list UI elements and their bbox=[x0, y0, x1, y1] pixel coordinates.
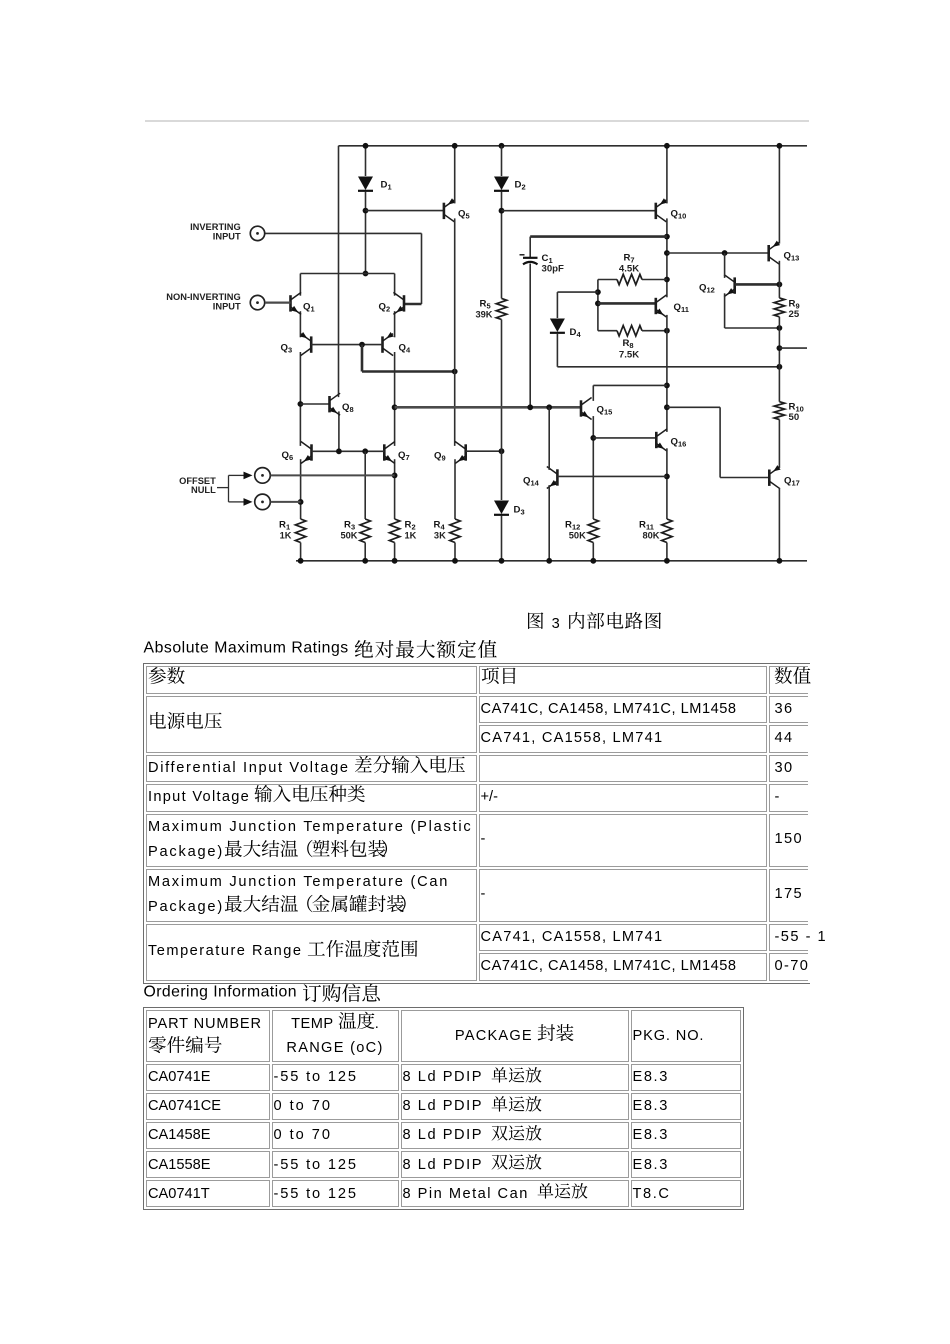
wire Q1 collector bbox=[299, 274, 301, 296]
transistor Q2 bbox=[393, 292, 404, 314]
wire Q12 collector up bbox=[724, 253, 726, 278]
transistor Q11 bbox=[656, 295, 667, 317]
junction V+ / D1 bbox=[363, 143, 369, 149]
svg-text:Q16: Q16 bbox=[671, 437, 687, 449]
wire bias tap vertical bbox=[361, 345, 364, 372]
junction Q10 collector / C1 wire bbox=[664, 234, 670, 240]
transistor Q13 bbox=[769, 242, 780, 264]
junction Q10 emitter / V+ rail bbox=[664, 143, 670, 149]
wire Q7 emitter down to R2 bbox=[394, 459, 396, 519]
caption 图3 内部电路图 bbox=[526, 612, 663, 632]
wire Q13 base bbox=[667, 252, 769, 254]
svg-text:50: 50 bbox=[789, 412, 800, 423]
junction R2 / V- rail bbox=[392, 558, 398, 564]
diode D1 bbox=[358, 177, 373, 191]
resistor R10 bbox=[774, 402, 784, 420]
transistor Q1 bbox=[291, 292, 302, 314]
svg-text:Q13: Q13 bbox=[784, 251, 800, 263]
svg-text:1K: 1K bbox=[405, 531, 417, 541]
svg-text:50K: 50K bbox=[569, 531, 586, 541]
wire R7 right lead bbox=[642, 279, 667, 281]
wire Q14 base to Q16 emitter line bbox=[557, 475, 667, 477]
junction R1 / V- rail bbox=[298, 558, 304, 564]
resistor R2 bbox=[389, 519, 399, 543]
wire inverting input bbox=[265, 232, 422, 234]
wire C1 top to Q10 collector bbox=[530, 235, 667, 238]
wire C1 top plate lead bbox=[529, 237, 531, 258]
junction R11 / V- rail bbox=[664, 558, 670, 564]
transistor Q6 bbox=[301, 442, 312, 464]
transistor Q8 bbox=[330, 393, 341, 415]
svg-text:NULL: NULL bbox=[191, 485, 216, 495]
wire Q3 collector to Q6 collector bbox=[299, 352, 301, 446]
transistor Q5 bbox=[444, 200, 455, 222]
wire Q16 emitter down to R11 bbox=[666, 448, 668, 519]
wire R12 to V- rail bbox=[592, 543, 594, 561]
wire R1 to V- rail bbox=[300, 543, 302, 561]
wire offset null 1 to Q7 emitter bbox=[271, 474, 395, 476]
svg-text:Q5: Q5 bbox=[458, 209, 470, 221]
junction Q13 emitter / V+ rail bbox=[777, 143, 783, 149]
svg-text:4.5K: 4.5K bbox=[619, 264, 639, 275]
wire R10 to Q17 collector bbox=[778, 420, 780, 468]
wire R7 left lead bbox=[598, 279, 617, 281]
transistor Q15 bbox=[581, 398, 592, 420]
junction Q12 base / Q13 collector bbox=[777, 282, 783, 288]
junction Q4 collector line / Q15 base wire bbox=[392, 404, 398, 410]
svg-text:Q6: Q6 bbox=[282, 450, 294, 462]
junction / Q13 base wire bbox=[664, 250, 670, 256]
resistor R11 bbox=[662, 519, 672, 543]
wire D3 to V- rail bbox=[501, 516, 503, 561]
junction Q8 collector / Q6-Q7 base wire bbox=[336, 448, 342, 454]
junction V+ / D2 bbox=[499, 143, 505, 149]
junction left vertical / Q11 base wire bbox=[595, 301, 601, 307]
wire Q12 base to R9 top bbox=[735, 283, 780, 286]
junction D4 wire / output column bbox=[777, 364, 783, 370]
svg-text:30pF: 30pF bbox=[542, 264, 565, 275]
junction R3 / V- rail bbox=[362, 558, 368, 564]
wire Q17 base vertical bbox=[719, 407, 721, 477]
svg-text:Q7: Q7 bbox=[398, 450, 410, 462]
junction C1 / Q15 base wire bbox=[527, 404, 533, 410]
svg-text:1K: 1K bbox=[280, 531, 292, 541]
svg-text:D2: D2 bbox=[515, 180, 526, 192]
resistor R9 bbox=[774, 298, 784, 317]
transistor Q7 bbox=[384, 442, 395, 464]
svg-text:R8: R8 bbox=[622, 338, 633, 350]
wire R7-R8 left vertical bbox=[597, 280, 599, 331]
resistor R5 bbox=[496, 298, 506, 319]
transistor Q4 bbox=[383, 334, 394, 356]
wire D1 anode bbox=[365, 146, 367, 176]
transistor Q12 bbox=[724, 275, 735, 297]
resistor R7 bbox=[617, 274, 642, 284]
node NON-INVERTING INPUT terminal bbox=[250, 295, 264, 309]
transistor Q10 bbox=[656, 200, 667, 222]
wire R5 to D3 bbox=[501, 320, 503, 501]
junction Q5 emitter / V+ rail bbox=[452, 143, 458, 149]
wire Q11 emitter to R8 junction down to Q16 collector bbox=[666, 315, 668, 432]
wire Q1 emitter to Q3 emitter bbox=[299, 311, 301, 337]
wire R8 left lead bbox=[598, 330, 617, 332]
junction / Q15 collector wire bbox=[664, 383, 670, 389]
junction left vertical / D4 top wire bbox=[595, 289, 601, 295]
transistor Q9 bbox=[455, 442, 466, 464]
svg-text:D1: D1 bbox=[381, 180, 392, 192]
wire D4 cathode down bbox=[556, 334, 558, 367]
wire D4 anode vertical bbox=[556, 292, 558, 318]
svg-text:Q4: Q4 bbox=[399, 343, 411, 355]
wire Q3-Q4 base bar bbox=[311, 344, 382, 346]
offset null bracket bbox=[217, 487, 229, 489]
wire Q9 base to R5/D3 node bbox=[466, 450, 502, 452]
svg-text:Q3: Q3 bbox=[281, 343, 293, 355]
junction bias wire / Q5-Q9 collector line bbox=[452, 369, 458, 375]
junction offset null 1 / R1 line bbox=[298, 499, 304, 505]
transistor Q3 bbox=[301, 334, 312, 356]
wire down to R3 bbox=[364, 451, 366, 519]
resistor R12 bbox=[588, 519, 598, 543]
svg-text:D4: D4 bbox=[570, 327, 582, 339]
junction offset null 2 / Q7 emitter bbox=[392, 473, 398, 479]
wire Q8 base bbox=[300, 403, 329, 405]
wire Q15 collector to Q11 emitter line bbox=[593, 384, 667, 386]
wire Q17 base horizontal bbox=[720, 477, 769, 479]
svg-text:Q2: Q2 bbox=[379, 302, 391, 314]
top rule bbox=[145, 120, 809, 122]
wire Q15 base (from Q4 collector) bbox=[395, 406, 581, 409]
junction output node bbox=[777, 345, 783, 351]
wire R8 right lead bbox=[642, 330, 667, 332]
junction Q14 emitter / V- rail bbox=[546, 558, 552, 564]
wire D4 top bbox=[557, 291, 598, 293]
wire R11 to V- rail bbox=[666, 543, 668, 561]
svg-text:3K: 3K bbox=[434, 531, 446, 541]
svg-text:Q11: Q11 bbox=[674, 302, 689, 314]
diode D4 bbox=[550, 319, 565, 333]
wire Q2 base stub bbox=[404, 303, 422, 306]
node INVERTING INPUT terminal bbox=[250, 226, 264, 240]
wire Q16 collector node to Q17 base bbox=[667, 406, 720, 408]
wire Q2 collector bbox=[394, 274, 396, 296]
wire offset null 2 to R1 top bbox=[271, 501, 301, 503]
wire Q2 emitter to Q4 emitter bbox=[394, 311, 396, 337]
wire Q10 emitter to V+ bbox=[666, 146, 668, 204]
wire Q14 emitter to V- rail bbox=[548, 485, 550, 561]
junction / Q17 drive wire bbox=[664, 404, 670, 410]
wire Q6 emitter down to R1 bbox=[300, 459, 302, 519]
node OFFSET NULL terminal 2 bbox=[255, 494, 271, 510]
wire Q6 base to Q7 base bbox=[312, 450, 385, 452]
svg-text:Q12: Q12 bbox=[699, 283, 715, 295]
junction D1 line / Q5 base wire bbox=[363, 208, 369, 214]
junction Q17 emitter / V- rail bbox=[777, 558, 783, 564]
junction base wire / R3 line bbox=[362, 448, 368, 454]
wire bias tap to Q5 collector bbox=[362, 370, 455, 373]
junction R9 bottom / Q12 emitter bbox=[777, 325, 783, 331]
wire D1 cathode to Q1/Q2 collector bar bbox=[365, 192, 367, 274]
svg-text:7.5K: 7.5K bbox=[619, 350, 639, 361]
wire Q15 collector up bbox=[592, 385, 594, 401]
wire D4 bottom to output column bbox=[557, 366, 779, 368]
wire Q13 collector down to R9 bbox=[778, 261, 780, 298]
wire Q5 base bbox=[366, 210, 444, 212]
wire Q14 collector up to Q15 base wire bbox=[548, 407, 550, 470]
junction / R7 right bbox=[664, 277, 670, 283]
wire Q10 collector down bbox=[666, 218, 668, 297]
wire R2 to V- rail bbox=[394, 543, 396, 561]
wire output stub bbox=[779, 347, 807, 349]
wire Q8 collector down bbox=[338, 411, 340, 451]
resistor R4 bbox=[450, 519, 460, 543]
wire C1 bottom to Q15 base wire bbox=[529, 264, 531, 408]
svg-text:Q10: Q10 bbox=[671, 209, 687, 221]
svg-text:Q1: Q1 bbox=[303, 302, 315, 314]
svg-text:Q9: Q9 bbox=[434, 451, 446, 463]
wire D2 anode bbox=[501, 146, 503, 176]
svg-text:D3: D3 bbox=[514, 505, 525, 517]
svg-text:25: 25 bbox=[789, 309, 800, 320]
wire R9 to R10 bbox=[778, 317, 780, 402]
resistor R3 bbox=[360, 519, 370, 543]
junction Q14 collector / Q15 base wire bbox=[546, 404, 552, 410]
wire V+ top rail bbox=[339, 145, 808, 147]
junction R12 / V- rail bbox=[590, 558, 596, 564]
wire Q16 base bbox=[593, 437, 656, 439]
wire Q4 collector to Q7 collector bbox=[394, 352, 396, 446]
svg-text:Q15: Q15 bbox=[597, 405, 613, 417]
junction Q12 collector / Q13 base wire bbox=[722, 250, 728, 256]
resistor R1 bbox=[295, 519, 305, 543]
svg-text:INPUT: INPUT bbox=[213, 231, 241, 241]
transistor Q16 bbox=[656, 429, 667, 451]
wire V- bottom rail bbox=[296, 560, 807, 562]
junction Q3 collector / Q8 base bbox=[298, 401, 304, 407]
wire D2 cathode to R5 bbox=[501, 192, 503, 299]
svg-text:39K: 39K bbox=[475, 310, 492, 320]
svg-text:INPUT: INPUT bbox=[213, 301, 241, 311]
junction D2 line / Q10 base wire bbox=[499, 208, 505, 214]
wire Q15 emitter down to R12 bbox=[592, 416, 594, 519]
svg-text:Q17: Q17 bbox=[784, 476, 800, 488]
resistor R8 bbox=[617, 326, 642, 336]
transistor Q14 bbox=[547, 467, 558, 489]
wire Q11 base bbox=[598, 302, 656, 305]
wire Q17 emitter to V- rail bbox=[778, 488, 780, 561]
junction Q15 emitter / Q16 base bbox=[590, 435, 596, 441]
junction R8 / Q11 emitter line bbox=[664, 328, 670, 334]
wire R4 to V- rail bbox=[454, 543, 456, 561]
wire Q5 collector down to Q9 collector bbox=[454, 218, 456, 446]
wire Q13 emitter to V+ bbox=[778, 146, 780, 244]
diode D3 bbox=[494, 501, 509, 515]
svg-text:50K: 50K bbox=[340, 531, 357, 541]
wire Q9 emitter down to R4 bbox=[454, 459, 456, 519]
junction D3 / V- rail bbox=[499, 558, 505, 564]
wire non-inverting input to Q1 base bbox=[265, 302, 291, 304]
junction collector bar / D1 bbox=[363, 271, 369, 277]
junction Q9 base / R5-D3 line bbox=[499, 448, 505, 454]
svg-text:Q14: Q14 bbox=[523, 476, 540, 488]
wire Q1-Q2 collector bar bbox=[300, 273, 394, 275]
junction R4 / V- rail bbox=[452, 558, 458, 564]
wire Q10 base bbox=[502, 210, 656, 212]
wire R3 to V- rail bbox=[364, 543, 366, 561]
wire inverting input vertical to Q2 base bbox=[421, 233, 423, 304]
svg-text:Q8: Q8 bbox=[342, 402, 354, 414]
wire Q12 emitter to R9 bottom bbox=[725, 327, 780, 329]
svg-text:80K: 80K bbox=[642, 531, 659, 541]
wire Q8 emitter to V+ bbox=[338, 146, 340, 397]
wire Q12 emitter down bbox=[724, 293, 726, 328]
node OFFSET NULL terminal 1 bbox=[255, 468, 271, 484]
transistor Q17 bbox=[769, 467, 780, 489]
diode D2 bbox=[494, 177, 509, 191]
wire Q5 emitter to V+ bbox=[454, 146, 456, 204]
capacitor C1 bbox=[523, 257, 538, 259]
junction Q16 emitter / Q14 base wire bbox=[664, 474, 670, 480]
junction base bar / bias tap bbox=[359, 342, 365, 348]
